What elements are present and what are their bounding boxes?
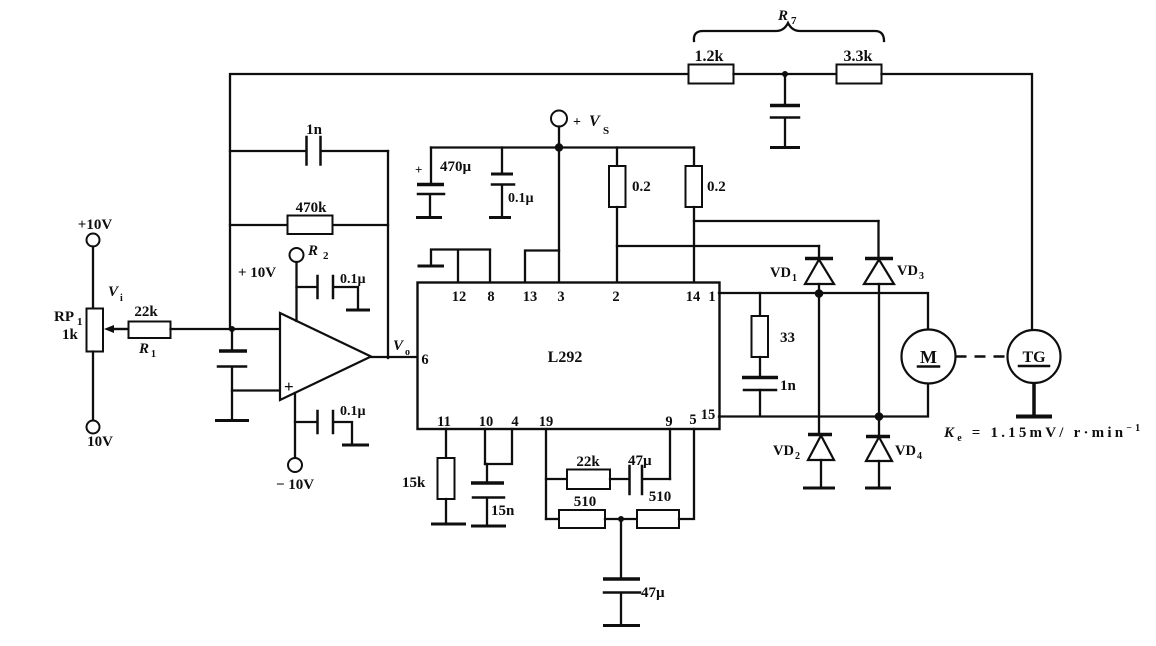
svg-text:2: 2 (612, 289, 619, 305)
node summing junction (229, 326, 235, 332)
ground for lower 0.1u (342, 444, 369, 447)
svg-text:15n: 15n (491, 503, 515, 519)
svg-text:5: 5 (689, 412, 696, 428)
svg-text:− 10V: − 10V (276, 477, 314, 493)
node Vi label (108, 284, 123, 304)
ground for summing node cap (215, 419, 249, 422)
resistor 1.2k (689, 48, 734, 84)
node Vs rail junction (555, 143, 563, 151)
svg-text:22k: 22k (576, 454, 600, 470)
svg-text:22k: 22k (134, 304, 158, 320)
svg-text:0.1µ: 0.1µ (340, 404, 366, 419)
+10V terminal circle (87, 234, 100, 247)
svg-text:0.1µ: 0.1µ (340, 272, 366, 287)
svg-text:R: R (777, 8, 788, 24)
svg-text:Ke = 1.15mV/ r·min−1: Ke = 1.15mV/ r·min−1 (943, 423, 1143, 444)
resistor 33 snubber (752, 293, 796, 376)
svg-text:15k: 15k (402, 475, 426, 491)
svg-text:i: i (120, 293, 123, 304)
wire from 3.3k to TG top (882, 74, 1033, 331)
wire pin 10 (484, 429, 486, 464)
svg-text:L292: L292 (548, 349, 583, 366)
capacitor 0.1u at +10V supply (297, 272, 366, 309)
svg-text:1: 1 (792, 273, 797, 284)
tachogenerator TG (1008, 330, 1061, 383)
capacitor 1n feedback (230, 122, 388, 165)
ground for 15k (431, 523, 466, 526)
resistor 3.3k (837, 48, 882, 84)
resistor 510 (left) (546, 494, 605, 528)
resistor 0.2 (pin 2 sense) (609, 148, 651, 283)
wire wiper to 22k (112, 328, 128, 330)
wire Vs terminal down to pin 3 (558, 127, 560, 283)
wire VD1/VD2 column (818, 293, 820, 434)
wire pin 9 (669, 429, 671, 479)
svg-text:S: S (603, 125, 609, 137)
svg-text:M: M (920, 347, 937, 367)
svg-text:2: 2 (323, 250, 329, 262)
svg-text:1n: 1n (306, 122, 323, 138)
brace R7 over 1.2k and 3.3k (694, 8, 884, 41)
diode VD1 (770, 246, 834, 293)
svg-text:510: 510 (649, 489, 672, 505)
capacitor 0.1u at Vs rail (491, 148, 534, 217)
capacitor at summing node (218, 329, 247, 419)
svg-text:6: 6 (421, 352, 428, 368)
resistor 15k (402, 458, 455, 523)
motor M (902, 330, 956, 384)
wiper arrow of RP1 (104, 325, 135, 333)
capacitor 47u (pin 9 network) (610, 453, 670, 494)
wire pin 15 output to motor bottom (719, 383, 928, 417)
wire 22k to summing node and inverting input (171, 328, 281, 330)
wire pin19 to 22k (546, 478, 567, 480)
node Vo label (393, 338, 410, 358)
svg-text:33: 33 (780, 330, 795, 346)
wire pin 12 (457, 250, 459, 282)
+10V supply terminal of op-amp (238, 248, 304, 321)
svg-text:1: 1 (708, 289, 715, 305)
ground for 470u (416, 216, 442, 219)
svg-text:9: 9 (665, 414, 672, 430)
ground for bottom 47u (603, 624, 640, 627)
wire pin 13 to Vs line (525, 251, 559, 283)
resistor 0.2 (pin 14 sense) (686, 148, 726, 283)
wire TG to ground (1032, 383, 1036, 415)
svg-text:2: 2 (795, 451, 800, 462)
wire pin 11 (445, 429, 447, 458)
svg-text:7: 7 (791, 15, 797, 27)
svg-text:+: + (415, 162, 422, 177)
potentiometer RP1 (54, 309, 103, 352)
svg-text:1: 1 (151, 349, 156, 360)
wire between 1.2k and 3.3k (734, 73, 837, 75)
wire bracket pins 12+8 to ground (431, 250, 490, 266)
svg-text:4: 4 (511, 414, 518, 430)
svg-text:VD: VD (895, 443, 916, 459)
wire terminal to potentiometer (92, 247, 94, 309)
svg-text:8: 8 (487, 289, 494, 305)
svg-text:0.2: 0.2 (632, 179, 651, 195)
svg-text:+10V: +10V (78, 217, 113, 233)
ground for VD4 (865, 487, 891, 490)
wire to non-inverting input (232, 389, 280, 391)
wire pin 8 (489, 250, 491, 282)
node junction between 1.2k and 3.3k (782, 71, 788, 77)
svg-text:12: 12 (452, 289, 467, 305)
wire pin 4 bracket to pin 10 (485, 429, 512, 464)
ground for upper 0.1u (346, 309, 370, 312)
svg-text:VD: VD (773, 443, 794, 459)
svg-text:470µ: 470µ (440, 159, 472, 175)
wire dashed coupling motor to tacho (956, 355, 1009, 358)
wire feedback vertical to op-amp output (387, 151, 389, 358)
wire pin2 lead to VD1 top (617, 245, 819, 247)
svg-text:VD: VD (897, 263, 918, 279)
resistor R1 22k (129, 304, 171, 360)
svg-text:3: 3 (919, 271, 924, 282)
svg-text:10: 10 (479, 414, 494, 430)
wire junction down to filter cap (784, 74, 786, 104)
resistor 22k (pin 9 network) (567, 454, 610, 489)
wire feedback bus: left vertical and top horizontal to 1.2k (230, 74, 688, 329)
svg-text:14: 14 (686, 289, 701, 305)
svg-text:+: + (573, 115, 581, 130)
-10V supply terminal of op-amp (276, 393, 314, 493)
op-amp L292 IC U2 (418, 283, 720, 430)
capacitor 0.1u at -10V supply (295, 404, 366, 444)
wire between 510 resistors (605, 518, 637, 520)
svg-text:o: o (405, 347, 410, 358)
svg-text:R: R (307, 243, 318, 259)
node out2 junction (875, 412, 884, 421)
capacitor 15n (471, 464, 515, 525)
node out1 junction (815, 289, 824, 298)
svg-text:+: + (284, 377, 294, 396)
diode VD2 (773, 435, 834, 488)
svg-text:V: V (589, 113, 601, 130)
svg-text:15: 15 (701, 407, 716, 423)
ground for junction cap (770, 146, 800, 149)
svg-text:10V: 10V (87, 434, 113, 450)
capacitor 47u (to ground) (603, 519, 665, 624)
diode VD3 (864, 221, 924, 416)
10V terminal circle (bottom) (87, 421, 100, 434)
svg-text:1k: 1k (62, 327, 79, 343)
+Vs terminal (551, 111, 609, 138)
svg-text:470k: 470k (296, 200, 328, 216)
svg-text:3.3k: 3.3k (844, 48, 873, 65)
wire pin14 lead to VD3 top (694, 220, 879, 222)
svg-text:1.2k: 1.2k (695, 48, 724, 65)
svg-text:RP: RP (54, 309, 74, 325)
svg-text:4: 4 (917, 451, 922, 462)
svg-text:VD: VD (770, 265, 791, 281)
svg-text:R: R (138, 341, 149, 357)
svg-text:47µ: 47µ (628, 453, 652, 469)
capacitor 1n snubber (742, 378, 797, 417)
op-amp U1 (280, 313, 371, 400)
ground for TG (1016, 415, 1052, 419)
capacitor 470u (415, 148, 472, 217)
svg-text:+ 10V: + 10V (238, 265, 276, 281)
wire pin 19 vertical (545, 429, 547, 519)
resistor 470k feedback (230, 200, 388, 234)
resistor 510 (right) (637, 489, 679, 528)
svg-text:TG: TG (1022, 349, 1046, 366)
svg-text:0.1µ: 0.1µ (508, 191, 534, 206)
ground for 15n (471, 525, 506, 528)
node R2 label (307, 243, 329, 262)
wire op-amp output to pin 6 (371, 356, 417, 358)
wire potentiometer bottom to -10V terminal (92, 352, 94, 421)
svg-text:47µ: 47µ (641, 585, 665, 601)
ground for rail 0.1u (489, 216, 511, 219)
wire supply rail (431, 146, 694, 148)
capacitor at R7 junction (770, 106, 800, 147)
svg-text:1n: 1n (780, 378, 797, 394)
svg-text:510: 510 (574, 494, 597, 510)
svg-text:3: 3 (557, 289, 564, 305)
svg-text:19: 19 (539, 414, 554, 430)
svg-text:0.2: 0.2 (707, 179, 726, 195)
svg-text:13: 13 (523, 289, 538, 305)
node between 510 resistors (618, 516, 624, 522)
wire pin 1 output to motor top (719, 293, 928, 330)
ground for VD2 (803, 487, 835, 490)
diode VD4 (866, 416, 922, 487)
wire 510 right to pin 5 (679, 429, 694, 519)
ground for pins 12+8 (418, 265, 445, 268)
svg-text:11: 11 (437, 414, 451, 430)
